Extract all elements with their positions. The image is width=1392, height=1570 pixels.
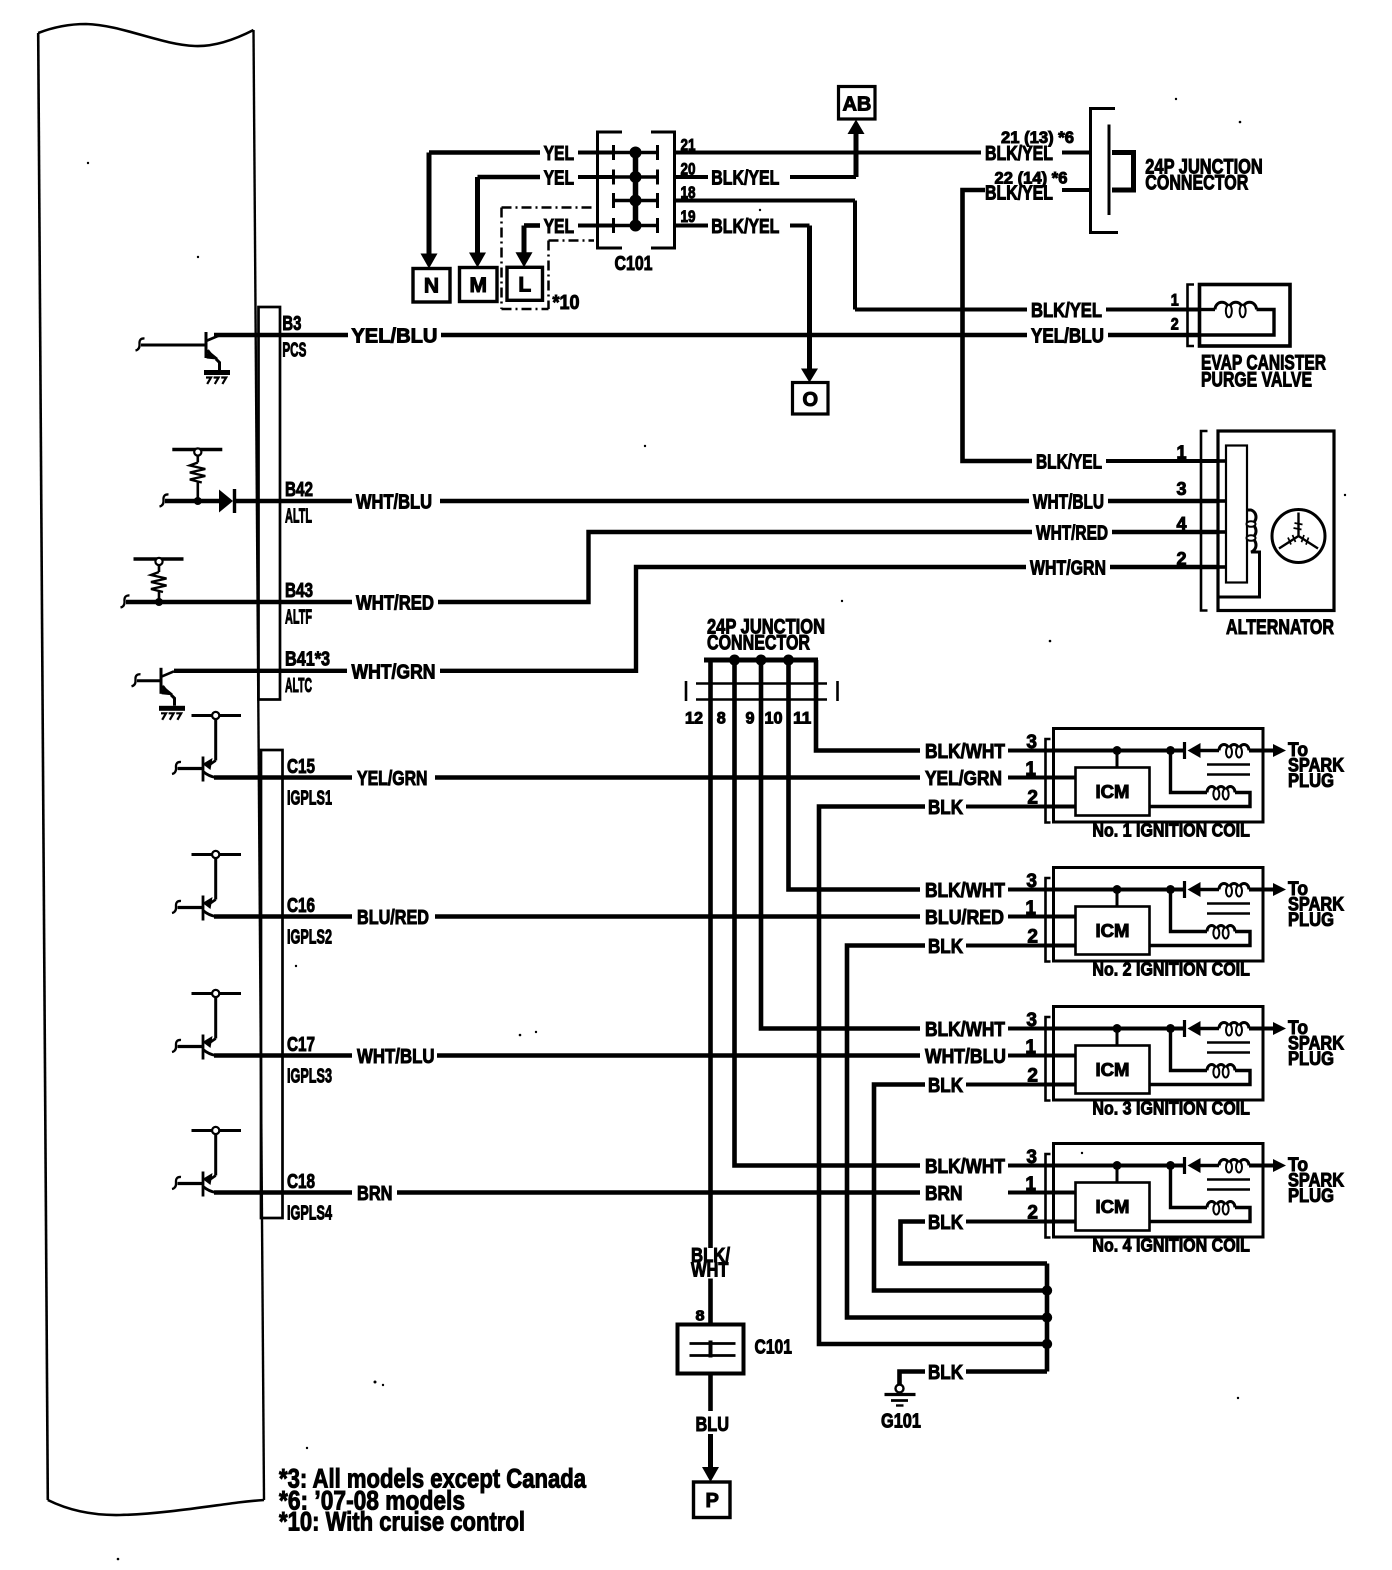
svg-text:C16: C16 [287, 894, 315, 917]
svg-text:3: 3 [1176, 479, 1186, 499]
svg-text:2: 2 [1027, 1066, 1038, 1087]
svg-text:11: 11 [793, 710, 811, 728]
svg-text:No. 4 IGNITION COIL: No. 4 IGNITION COIL [1092, 1235, 1250, 1256]
svg-text:PCS: PCS [282, 339, 306, 362]
svg-text:C15: C15 [287, 755, 315, 778]
svg-text:B42: B42 [285, 478, 313, 501]
svg-text:BLU/RED: BLU/RED [925, 906, 1004, 929]
svg-text:WHT/GRN: WHT/GRN [352, 660, 436, 683]
svg-text:BLK: BLK [928, 1211, 963, 1234]
svg-text:BLK/YEL: BLK/YEL [711, 215, 779, 238]
svg-text:ALTL: ALTL [285, 505, 312, 528]
svg-text:YEL: YEL [544, 167, 575, 190]
svg-text:IGPLS2: IGPLS2 [287, 926, 332, 949]
svg-text:1: 1 [1176, 443, 1186, 463]
svg-text:B3: B3 [282, 312, 301, 335]
svg-text:10: 10 [765, 710, 783, 728]
svg-text:BLK/YEL: BLK/YEL [711, 167, 779, 190]
svg-text:AB: AB [842, 94, 871, 116]
svg-text:B43: B43 [285, 579, 313, 602]
svg-text:CONNECTOR: CONNECTOR [707, 632, 810, 655]
svg-text:3: 3 [1026, 871, 1037, 892]
svg-text:ALTF: ALTF [285, 606, 312, 629]
svg-text:9: 9 [746, 710, 755, 728]
svg-text:PLUG: PLUG [1288, 1186, 1334, 1207]
svg-text:YEL/GRN: YEL/GRN [357, 767, 428, 790]
svg-text:ALTERNATOR: ALTERNATOR [1226, 616, 1334, 639]
svg-text:M: M [469, 274, 487, 297]
svg-text:N: N [424, 275, 439, 298]
svg-text:BLK/YEL: BLK/YEL [1031, 299, 1102, 322]
svg-text:21 (13) *6: 21 (13) *6 [1001, 128, 1074, 147]
svg-text:2: 2 [1027, 1203, 1038, 1224]
svg-text:2: 2 [1027, 788, 1038, 809]
svg-text:BLU/RED: BLU/RED [357, 906, 429, 929]
svg-text:BLK: BLK [928, 796, 963, 819]
svg-text:8: 8 [696, 1308, 705, 1325]
svg-text:C18: C18 [287, 1170, 315, 1193]
svg-text:WHT/BLU: WHT/BLU [357, 1045, 435, 1068]
svg-text:No. 3 IGNITION COIL: No. 3 IGNITION COIL [1092, 1098, 1250, 1119]
svg-text:IGPLS4: IGPLS4 [287, 1202, 332, 1225]
svg-text:G101: G101 [881, 1410, 921, 1433]
svg-text:1: 1 [1171, 292, 1179, 310]
svg-text:WHT/GRN: WHT/GRN [1030, 557, 1106, 580]
svg-text:2: 2 [1171, 316, 1179, 334]
svg-text:ICM: ICM [1096, 921, 1130, 941]
svg-text:WHT/BLU: WHT/BLU [1033, 491, 1104, 514]
svg-text:BRN: BRN [925, 1182, 963, 1205]
svg-text:3: 3 [1026, 1147, 1037, 1168]
svg-text:3: 3 [1026, 732, 1037, 753]
svg-text:No. 2 IGNITION COIL: No. 2 IGNITION COIL [1092, 959, 1250, 980]
svg-text:BLK/WHT: BLK/WHT [925, 740, 1005, 763]
svg-text:BLK/WHT: BLK/WHT [925, 879, 1005, 902]
svg-text:PLUG: PLUG [1288, 910, 1334, 931]
svg-text:1: 1 [1025, 898, 1036, 919]
svg-text:P: P [706, 1490, 719, 1512]
svg-text:CONNECTOR: CONNECTOR [1145, 172, 1248, 195]
svg-text:C101: C101 [755, 1336, 793, 1359]
svg-text:1: 1 [1025, 759, 1036, 780]
svg-text:BLK: BLK [928, 935, 963, 958]
svg-text:ALTC: ALTC [285, 674, 312, 697]
svg-text:PLUG: PLUG [1288, 1049, 1334, 1070]
svg-text:YEL: YEL [544, 142, 575, 165]
svg-text:19: 19 [681, 207, 696, 226]
svg-text:YEL: YEL [544, 215, 575, 238]
svg-text:BRN: BRN [357, 1182, 393, 1205]
svg-text:BLK/YEL: BLK/YEL [985, 182, 1053, 205]
svg-text:*10: With cruise control: *10: With cruise control [279, 1507, 525, 1537]
svg-text:IGPLS1: IGPLS1 [287, 787, 332, 810]
svg-text:8: 8 [717, 710, 726, 728]
svg-text:ICM: ICM [1096, 782, 1130, 802]
svg-text:YEL/BLU: YEL/BLU [351, 325, 437, 348]
svg-text:IGPLS3: IGPLS3 [287, 1065, 332, 1088]
svg-text:C17: C17 [287, 1033, 315, 1056]
svg-text:2: 2 [1027, 927, 1038, 948]
svg-text:BLU: BLU [696, 1413, 730, 1436]
svg-text:1: 1 [1025, 1037, 1036, 1058]
svg-text:PLUG: PLUG [1288, 771, 1334, 792]
svg-text:No. 1 IGNITION COIL: No. 1 IGNITION COIL [1092, 820, 1250, 841]
svg-text:*10: *10 [553, 291, 580, 314]
svg-text:BLK: BLK [928, 1074, 963, 1097]
svg-text:1: 1 [1025, 1174, 1036, 1195]
svg-text:3: 3 [1026, 1010, 1037, 1031]
svg-text:WHT/RED: WHT/RED [1036, 522, 1108, 545]
svg-text:YEL/GRN: YEL/GRN [925, 767, 1002, 790]
svg-text:WHT/BLU: WHT/BLU [356, 491, 432, 514]
svg-text:PURGE VALVE: PURGE VALVE [1201, 369, 1312, 392]
svg-text:4: 4 [1176, 514, 1186, 534]
svg-text:C101: C101 [615, 252, 653, 275]
svg-text:BLK: BLK [928, 1361, 963, 1384]
svg-text:B41*3: B41*3 [285, 648, 330, 671]
svg-text:BLK/YEL: BLK/YEL [1036, 451, 1102, 474]
svg-text:ICM: ICM [1096, 1197, 1130, 1217]
svg-text:O: O [803, 389, 819, 411]
svg-text:L: L [518, 274, 531, 297]
svg-text:BLK/WHT: BLK/WHT [925, 1018, 1005, 1041]
svg-text:YEL/BLU: YEL/BLU [1031, 325, 1104, 348]
svg-text:WHT/BLU: WHT/BLU [925, 1045, 1006, 1068]
svg-text:ICM: ICM [1096, 1060, 1130, 1080]
svg-text:WHT/RED: WHT/RED [356, 592, 434, 615]
svg-text:12: 12 [685, 710, 703, 728]
svg-text:WHT: WHT [691, 1259, 729, 1282]
svg-text:BLK/WHT: BLK/WHT [925, 1155, 1005, 1178]
svg-text:2: 2 [1176, 549, 1186, 569]
